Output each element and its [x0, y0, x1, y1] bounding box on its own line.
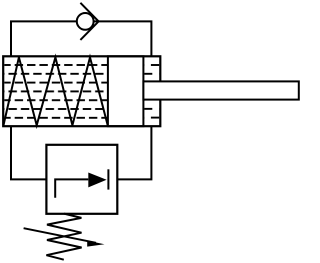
- flow control valve box: [46, 145, 117, 214]
- hatch dash right strip row1: [151, 64, 159, 66]
- adjustment spring: [46, 214, 81, 260]
- piston: [108, 56, 143, 126]
- hatch mask right strip: [144, 58, 159, 125]
- spring (inside cylinder): [3, 57, 107, 125]
- flow control inlet line: [55, 179, 88, 197]
- wire top loop: [11, 21, 151, 56]
- flow control arrow: [88, 173, 106, 188]
- cylinder fluid hatch: [4, 58, 159, 125]
- cylinder body: [3, 56, 160, 126]
- wire bottom left: [11, 126, 46, 179]
- hatch dash right strip row2: [144, 73, 152, 75]
- flow control stop bar: [107, 169, 109, 189]
- hatch dash right strip row7: [151, 117, 159, 119]
- check valve circle: [77, 13, 94, 30]
- wire bottom right: [117, 126, 151, 179]
- check valve seat chevron: [80, 3, 98, 40]
- hatch dash right strip row6: [144, 108, 152, 110]
- piston rod: [143, 81, 298, 99]
- adjustment arrow: [24, 228, 96, 243]
